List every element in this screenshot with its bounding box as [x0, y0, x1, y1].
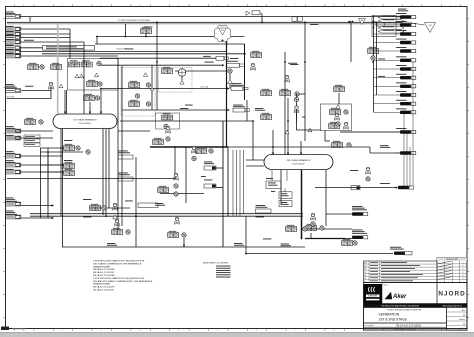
svg-text:Char-and-I Are/Tan/King1 N/A: Char-and-I Are/Tan/King1 N/A	[393, 328, 416, 331]
svg-text:XV PRODUCER A SHUTDOWN PANEL: XV PRODUCER A SHUTDOWN PANEL	[118, 19, 150, 22]
svg-text:TECHNOLOGY AND PRODUCTS DIVISI: TECHNOLOGY AND PRODUCTS DIVISION	[381, 305, 419, 308]
svg-text:1: 1	[463, 275, 464, 277]
svg-text:A3: A3	[364, 262, 366, 265]
svg-text:SEPARATION: SEPARATION	[379, 312, 400, 316]
svg-text:302: 302	[429, 25, 432, 27]
svg-text:XB-1A-KO-173-02297: XB-1A-KO-173-02297	[93, 271, 115, 274]
svg-text:A2: A2	[364, 265, 366, 268]
svg-text:302: 302	[221, 30, 224, 32]
svg-text:2ND STAGE COMPRESSOR, THE REFE: 2ND STAGE COMPRESSOR, THE REFERENCE	[93, 262, 142, 265]
svg-text:Rev.1: Rev.1	[384, 285, 388, 287]
svg-text:1: 1	[463, 272, 464, 274]
svg-text:VALVES NEED LOCK REVIEW: VALVES NEED LOCK REVIEW	[203, 262, 229, 265]
svg-text:56-VG-20002: 56-VG-20002	[292, 164, 305, 166]
svg-text:BOTTOM: BOTTOM	[7, 97, 15, 99]
svg-text:A3.: A3.	[462, 309, 465, 312]
svg-text:XB-1A-KO-173-02270: XB-1A-KO-173-02270	[93, 286, 115, 289]
svg-text:1: 1	[463, 262, 464, 264]
svg-text:NJORD CENTRAL STORAGE FLOATER: NJORD CENTRAL STORAGE FLOATER MK	[388, 309, 423, 312]
svg-text:XB-1A-KO-173-02298: XB-1A-KO-173-02298	[93, 274, 115, 277]
svg-text:Aker: Aker	[392, 294, 407, 300]
svg-text:1ST & 2ND STAGE: 1ST & 2ND STAGE	[379, 317, 408, 321]
svg-text:302: 302	[361, 20, 364, 22]
svg-text:1: 1	[463, 278, 464, 280]
svg-text:1 FOR PROCESS START/STOP SEQU: 1 FOR PROCESS START/STOP SEQUENCES FOR	[93, 260, 145, 263]
svg-text:1ST STAGE SEPARATOR: 1ST STAGE SEPARATOR	[73, 118, 97, 121]
svg-text:XB-1A-KO-173-02298: XB-1A-KO-173-02298	[93, 268, 115, 271]
svg-text:A1: A1	[364, 268, 366, 271]
svg-text:2 FOR PROCESS START/STOP SEQU: 2 FOR PROCESS START/STOP SEQUENCES FOR	[93, 277, 145, 280]
svg-text:IN RECORD: IN RECORD	[446, 259, 458, 261]
svg-text:1of1: 1of1	[461, 328, 465, 330]
svg-text:03: 03	[364, 272, 366, 274]
svg-text:4TH AND 5TH STAGE COMPRESSORS,: 4TH AND 5TH STAGE COMPRESSORS, THE REFER…	[93, 280, 153, 283]
svg-text:KVAERNER: KVAERNER	[368, 295, 378, 298]
svg-text:Drawing No.: Drawing No.	[365, 324, 375, 327]
svg-text:02: 02	[364, 275, 366, 277]
svg-text:01: 01	[364, 278, 366, 280]
svg-text:TB-1A-KO-173-02010: TB-1A-KO-173-02010	[396, 323, 422, 327]
svg-text:XB-1A-KO-173-02271: XB-1A-KO-173-02271	[93, 289, 115, 292]
svg-text:2ND STAGE SEPARATOR: 2ND STAGE SEPARATOR	[287, 159, 311, 162]
svg-text:1: 1	[463, 269, 464, 271]
svg-text:56-VG-20001: 56-VG-20001	[79, 123, 92, 125]
svg-text:DRAWINGS ARE:: DRAWINGS ARE:	[93, 265, 111, 268]
svg-text:DRAWINGS ARE:: DRAWINGS ARE:	[93, 283, 111, 286]
svg-text:03: 03	[463, 323, 465, 325]
svg-text:1: 1	[463, 266, 464, 268]
svg-text:NJORD: NJORD	[438, 291, 465, 298]
svg-text:03: 03	[463, 314, 465, 316]
svg-text:Sheets: Sheets	[459, 318, 465, 321]
